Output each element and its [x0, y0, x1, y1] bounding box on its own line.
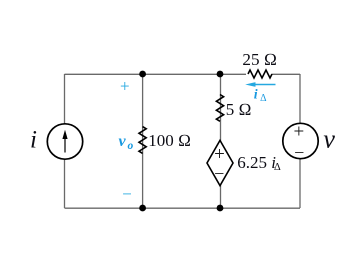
resistor R 100 ohm zigzag	[139, 127, 146, 154]
junction node bottom-left	[139, 205, 146, 212]
svg-text:25 Ω: 25 Ω	[242, 50, 277, 69]
junction node bottom-right	[217, 205, 224, 212]
svg-text:o: o	[128, 140, 134, 152]
dependent source diamond	[207, 140, 233, 185]
wire top-left segment	[65, 73, 247, 75]
junction node top-left	[139, 71, 146, 78]
svg-text:i: i	[30, 127, 37, 154]
svg-text:Δ: Δ	[260, 93, 267, 104]
wire right	[299, 74, 301, 208]
wire second branch (5 ohm / dep source)	[220, 74, 222, 208]
svg-text:100 Ω: 100 Ω	[148, 131, 191, 150]
svg-text:5 Ω: 5 Ω	[226, 100, 252, 119]
svg-text:v: v	[119, 133, 127, 150]
svg-text:i: i	[254, 88, 258, 103]
voltage source circle	[283, 123, 318, 158]
resistor 5 ohm zigzag	[216, 95, 223, 122]
junction node top-right	[217, 71, 224, 78]
wire left	[64, 74, 66, 208]
svg-text:Δ: Δ	[274, 162, 281, 173]
svg-text:+: +	[214, 144, 225, 165]
current source arrow	[64, 136, 66, 153]
svg-text:−: −	[214, 164, 224, 184]
resistor 25 ohm zigzag (horizontal)	[248, 70, 272, 78]
svg-text:6.25 i: 6.25 i	[237, 153, 276, 172]
current arrow i-delta (cyan)	[245, 82, 275, 87]
svg-text:+: +	[120, 77, 130, 96]
wire top-right segment	[272, 73, 300, 75]
svg-text:+: +	[294, 121, 305, 142]
current source circle	[47, 124, 82, 159]
svg-text:v: v	[323, 124, 335, 153]
wire bottom	[65, 207, 301, 209]
svg-text:−: −	[294, 142, 304, 162]
wire middle branch (100 ohm)	[142, 74, 144, 208]
svg-text:−: −	[122, 184, 132, 203]
